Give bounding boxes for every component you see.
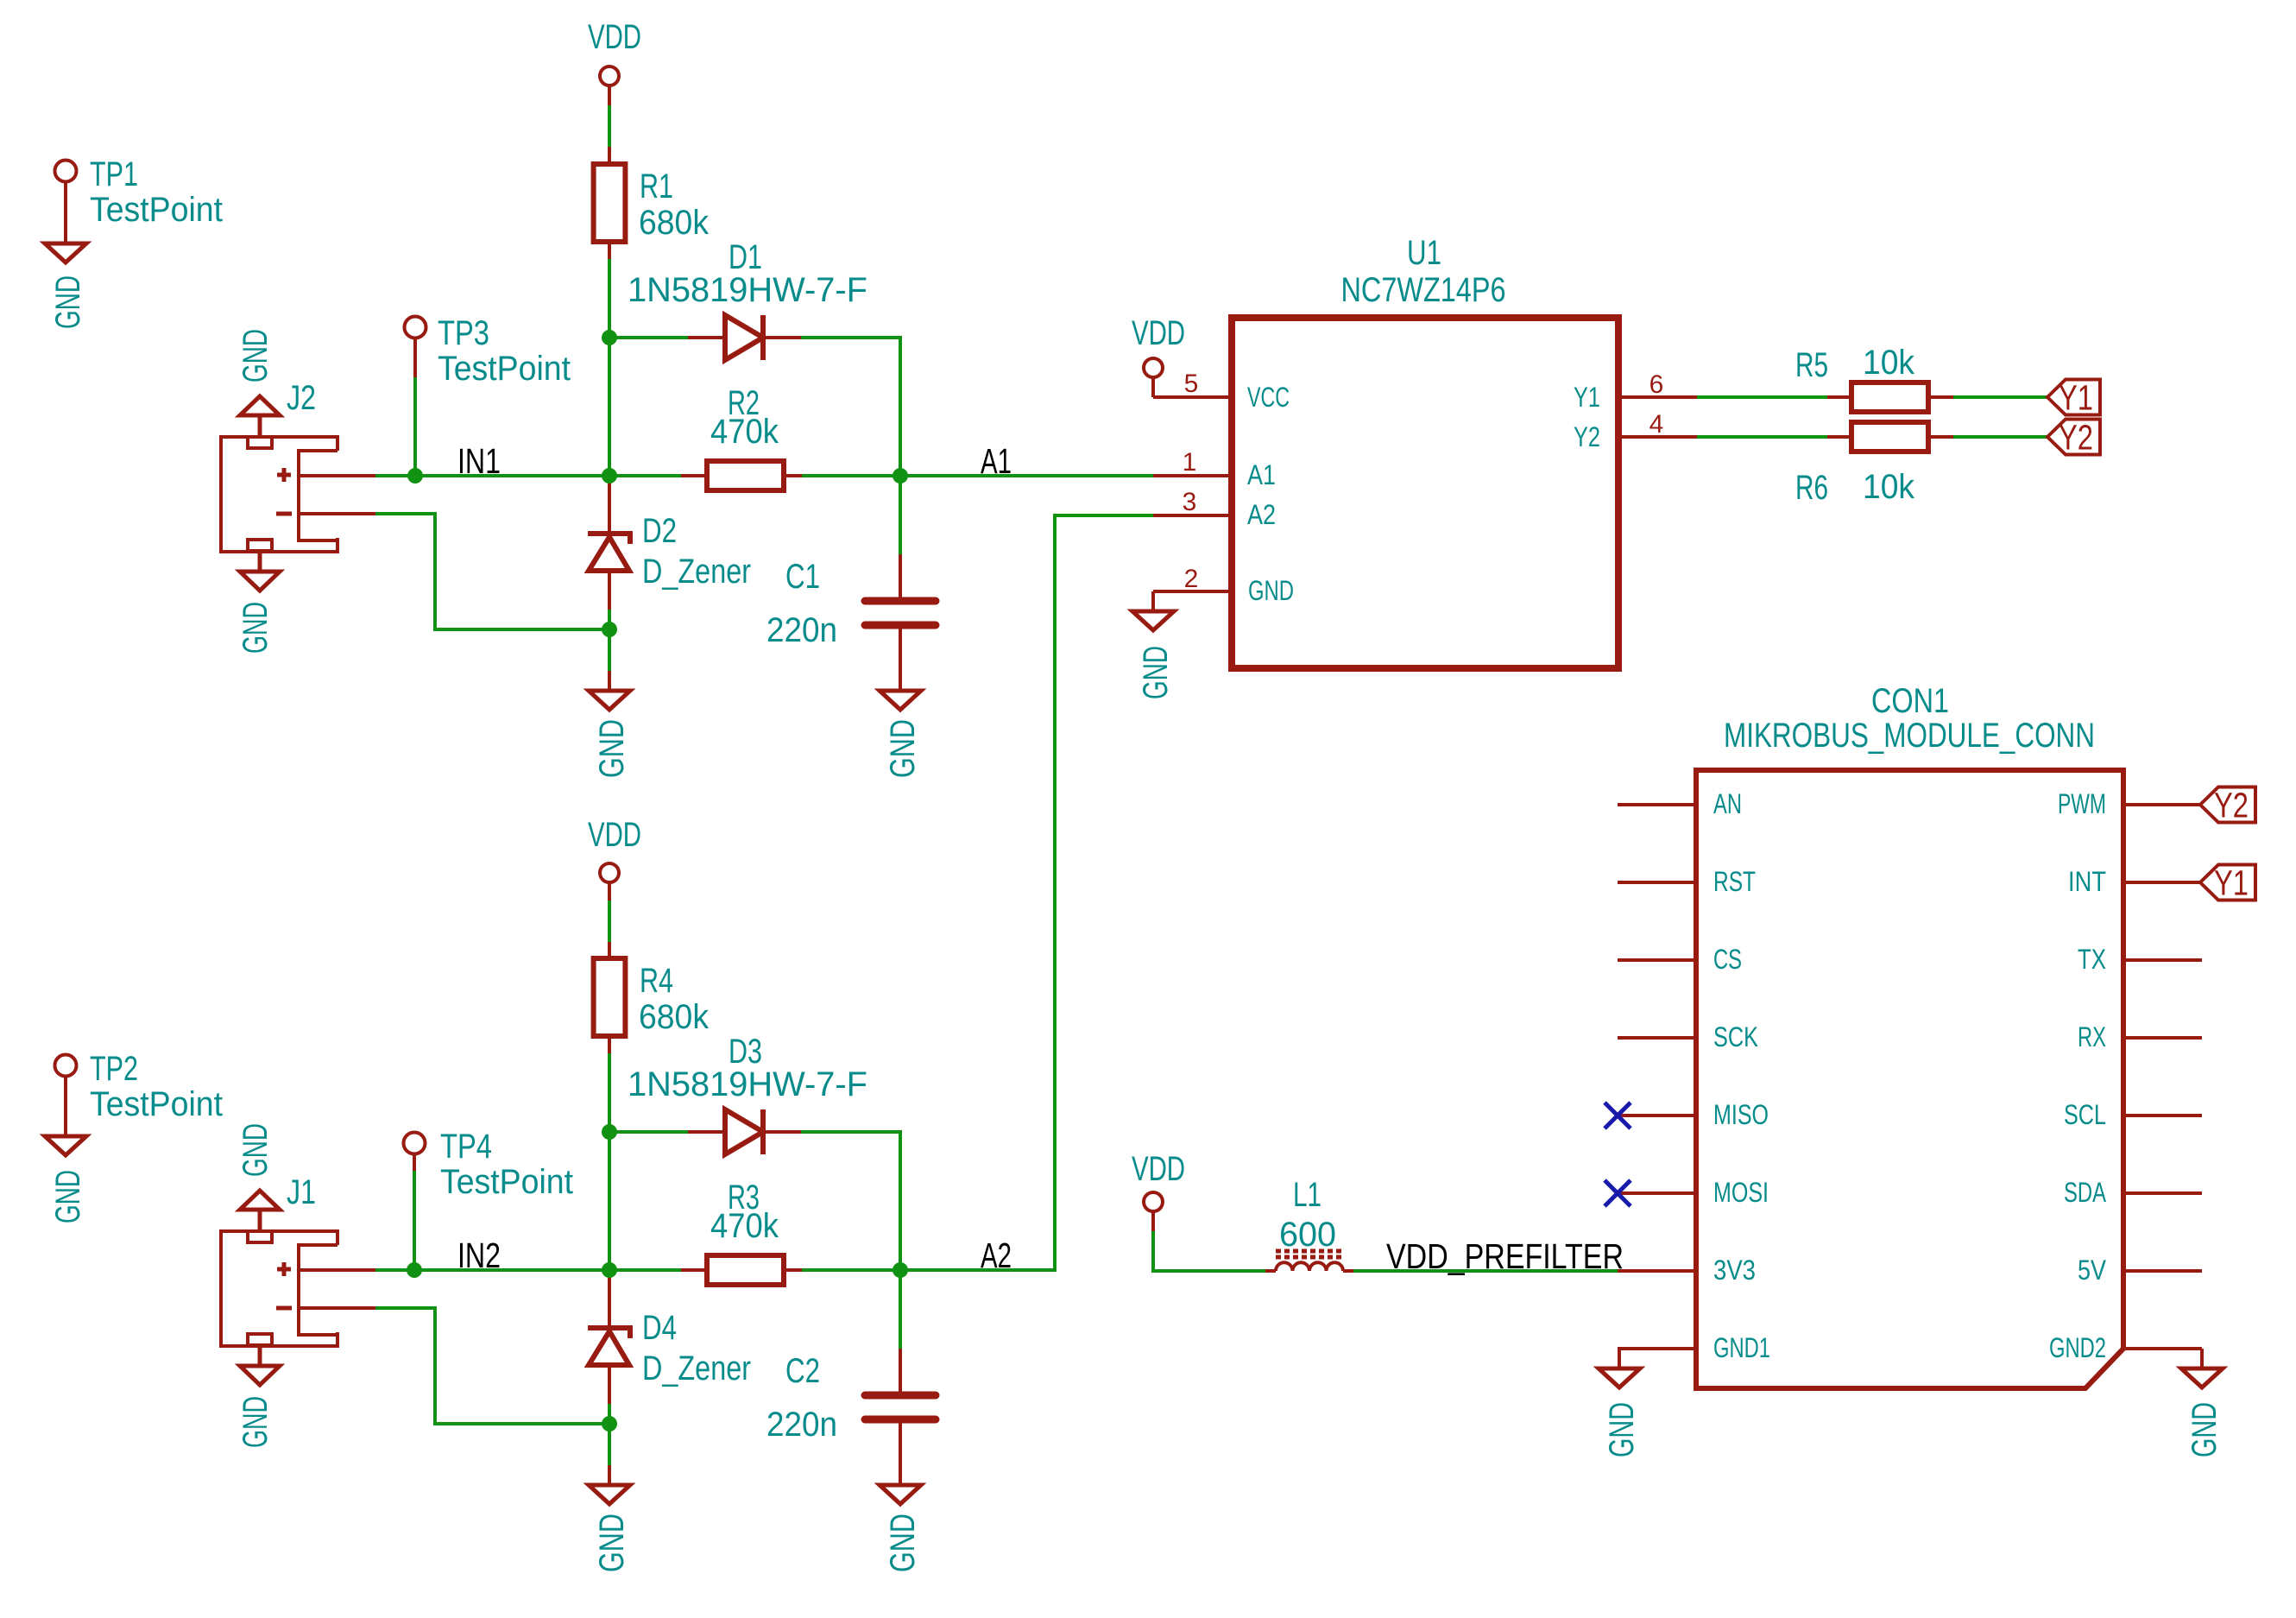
no-connect X on MISO xyxy=(1605,1103,1631,1128)
wire TP4 to IN2 xyxy=(413,1171,416,1270)
wire R3 to A2 corner xyxy=(802,1268,1055,1272)
junction TP4/IN2 xyxy=(407,1262,422,1278)
GND label below J1 xyxy=(237,1396,274,1448)
diode D2 D_Zener xyxy=(588,476,751,610)
U1 pin 2 GND xyxy=(1153,565,1294,606)
CON1 pin INT xyxy=(2068,866,2202,897)
wire U1 Y2 to R6 xyxy=(1697,435,1829,439)
CON1 pin PWM xyxy=(2058,788,2202,819)
wire U1 Y1 to R5 xyxy=(1697,395,1829,399)
svg-text:GND: GND xyxy=(237,602,274,654)
svg-text:IN1: IN1 xyxy=(457,441,501,481)
power symbol VDD (L1) xyxy=(1132,1150,1185,1231)
svg-text:SDA: SDA xyxy=(2064,1177,2106,1208)
svg-text:680k: 680k xyxy=(639,204,710,242)
diode D1 1N5819HW-7-F xyxy=(628,238,867,360)
power symbol VDD (R4) xyxy=(588,816,641,901)
wire IN1 from J2+ xyxy=(375,474,684,477)
svg-text:Y1: Y1 xyxy=(2214,863,2249,903)
connector J1 xyxy=(221,1173,375,1385)
wire R6 to Y2 label xyxy=(1953,435,2047,439)
svg-text:A1: A1 xyxy=(981,441,1012,481)
wire A2 node to C2 xyxy=(899,1270,902,1349)
ground symbol below D2 xyxy=(589,671,631,778)
svg-text:3V3: 3V3 xyxy=(1713,1255,1756,1286)
CON1 pin AN xyxy=(1618,788,1742,819)
svg-text:J2: J2 xyxy=(287,379,316,417)
svg-text:Y2: Y2 xyxy=(2214,786,2249,825)
CON1 pin RST xyxy=(1618,866,1756,897)
wire J2 minus to D2 anode xyxy=(375,514,609,629)
diode D4 D_Zener xyxy=(588,1270,751,1404)
svg-text:R4: R4 xyxy=(640,962,673,1000)
global label Y2 xyxy=(2047,418,2100,458)
svg-text:GND: GND xyxy=(1248,575,1294,606)
svg-text:MIKROBUS_MODULE_CONN: MIKROBUS_MODULE_CONN xyxy=(1724,717,2095,755)
svg-text:Y1: Y1 xyxy=(2059,378,2093,418)
resistor R1 680k xyxy=(594,147,710,259)
wire D1 to A1 node xyxy=(801,338,900,476)
junction at R1/D1 tap xyxy=(602,330,617,345)
svg-text:TestPoint: TestPoint xyxy=(438,350,571,388)
CON1 pin 5V xyxy=(2078,1255,2202,1286)
svg-text:GND1: GND1 xyxy=(1713,1332,1770,1363)
U1 pin 3 A2 xyxy=(1153,488,1276,530)
svg-text:10k: 10k xyxy=(1863,468,1915,506)
svg-text:TestPoint: TestPoint xyxy=(90,1085,223,1123)
ground symbol below C1 xyxy=(880,671,922,778)
CON1 pin GND1 xyxy=(1618,1332,1770,1363)
svg-text:GND: GND xyxy=(237,1396,274,1448)
svg-text:680k: 680k xyxy=(639,998,710,1036)
ground symbol for TP1 xyxy=(45,243,87,329)
testpoint TP3 xyxy=(405,314,571,388)
net label IN1 xyxy=(457,441,501,481)
connector J2 xyxy=(221,379,375,591)
diode D3 1N5819HW-7-F xyxy=(628,1033,867,1154)
CON1 pin SDA xyxy=(2064,1177,2202,1208)
wire R5 to Y1 label xyxy=(1953,395,2047,399)
resistor R2 470k xyxy=(681,384,804,490)
svg-text:470k: 470k xyxy=(710,1207,779,1245)
net label A1 xyxy=(981,441,1012,481)
svg-text:CON1: CON1 xyxy=(1871,682,1949,720)
svg-text:VDD_PREFILTER: VDD_PREFILTER xyxy=(1386,1236,1624,1276)
CON1 pin GND2 xyxy=(2049,1332,2202,1363)
svg-text:L1: L1 xyxy=(1293,1176,1321,1214)
junction TP3/IN1 xyxy=(407,468,423,484)
svg-text:RX: RX xyxy=(2078,1021,2106,1052)
wire node to D3 xyxy=(609,1130,690,1134)
svg-text:C2: C2 xyxy=(785,1352,820,1390)
svg-text:1N5819HW-7-F: 1N5819HW-7-F xyxy=(628,271,867,309)
svg-text:10k: 10k xyxy=(1863,344,1915,382)
svg-text:AN: AN xyxy=(1713,788,1742,819)
resistor R5 10k xyxy=(1795,344,1953,412)
svg-text:NC7WZ14P6: NC7WZ14P6 xyxy=(1341,271,1506,309)
svg-text:GND: GND xyxy=(1603,1402,1641,1457)
svg-text:TestPoint: TestPoint xyxy=(440,1163,573,1201)
svg-text:GND: GND xyxy=(237,1123,274,1177)
CON1 pin SCL xyxy=(2064,1099,2202,1130)
svg-text:SCL: SCL xyxy=(2064,1099,2106,1130)
svg-text:3: 3 xyxy=(1183,488,1197,516)
svg-text:VDD: VDD xyxy=(1132,1150,1185,1188)
junction R1/D2/IN1 xyxy=(602,468,617,484)
svg-text:SCK: SCK xyxy=(1713,1021,1758,1052)
svg-text:VDD: VDD xyxy=(588,18,641,56)
svg-text:C1: C1 xyxy=(785,558,820,596)
svg-text:1N5819HW-7-F: 1N5819HW-7-F xyxy=(628,1065,867,1103)
U1 pin 1 A1 xyxy=(1153,448,1276,490)
GND label below J2 xyxy=(237,602,274,654)
junction D2/J2- xyxy=(602,622,617,637)
svg-text:RST: RST xyxy=(1713,866,1756,897)
svg-text:R5: R5 xyxy=(1795,346,1828,384)
net label A2 xyxy=(981,1236,1012,1275)
svg-text:VCC: VCC xyxy=(1247,382,1290,413)
net label VDD_PREFILTER xyxy=(1386,1236,1624,1276)
svg-text:A2: A2 xyxy=(1247,499,1276,530)
junction at R4/D3 tap xyxy=(602,1124,617,1140)
svg-text:R6: R6 xyxy=(1795,469,1828,507)
svg-text:470k: 470k xyxy=(710,413,779,451)
wire VDD to L1 xyxy=(1153,1231,1267,1271)
svg-text:GND: GND xyxy=(237,329,274,382)
connector CON1 MIKROBUS_MODULE_CONN body xyxy=(1696,682,2123,1388)
svg-text:TP1: TP1 xyxy=(90,155,138,193)
wire D4 anode down xyxy=(608,1404,611,1465)
wire A1 node to C1 xyxy=(899,476,902,554)
svg-text:GND: GND xyxy=(49,1170,87,1223)
svg-text:2: 2 xyxy=(1184,565,1199,593)
GND label above J2 xyxy=(237,329,274,382)
junction D4/J1- xyxy=(602,1416,617,1432)
power symbol VDD (U1) xyxy=(1132,314,1185,397)
svg-text:600: 600 xyxy=(1279,1216,1336,1254)
svg-text:MISO: MISO xyxy=(1713,1099,1769,1130)
wire D2 anode down xyxy=(608,610,611,671)
svg-text:220n: 220n xyxy=(766,611,837,649)
svg-text:GND: GND xyxy=(2186,1402,2223,1457)
svg-text:1: 1 xyxy=(1183,448,1197,477)
CON1 pin SCK xyxy=(1618,1021,1758,1052)
svg-text:VDD: VDD xyxy=(588,816,641,854)
svg-text:GND: GND xyxy=(49,275,87,329)
junction R3/D3/C2 xyxy=(893,1262,908,1278)
svg-text:VDD: VDD xyxy=(1132,314,1185,352)
svg-text:TP2: TP2 xyxy=(90,1050,138,1088)
svg-text:TP3: TP3 xyxy=(438,314,489,352)
svg-text:GND: GND xyxy=(593,1514,631,1572)
svg-text:Y2: Y2 xyxy=(2059,418,2093,458)
wire R2 to U1 pin A1 xyxy=(802,474,1153,477)
svg-text:D4: D4 xyxy=(642,1309,677,1347)
capacitor C2 220n xyxy=(766,1349,936,1465)
testpoint TP1 xyxy=(55,155,224,243)
CON1 pin TX xyxy=(2078,944,2202,975)
svg-text:6: 6 xyxy=(1649,370,1664,399)
wire VDD to R4 xyxy=(608,901,611,942)
svg-text:PWM: PWM xyxy=(2058,788,2106,819)
junction R4/D4/IN2 xyxy=(602,1262,617,1278)
svg-text:IN2: IN2 xyxy=(457,1236,501,1275)
svg-text:GND2: GND2 xyxy=(2049,1332,2106,1363)
svg-text:TestPoint: TestPoint xyxy=(90,191,223,229)
U1 pin 5 VCC xyxy=(1153,370,1290,413)
svg-text:D_Zener: D_Zener xyxy=(642,553,751,591)
CON1 pin MOSI xyxy=(1618,1177,1769,1208)
svg-text:U1: U1 xyxy=(1407,234,1441,272)
U1 pin 4 Y2 xyxy=(1574,410,1697,452)
svg-text:INT: INT xyxy=(2068,866,2106,897)
CON1 pin 3V3 xyxy=(1618,1255,1756,1286)
svg-text:GND: GND xyxy=(884,719,922,778)
net label IN2 xyxy=(457,1236,501,1275)
svg-text:TX: TX xyxy=(2078,944,2106,975)
wire VDD_PREFILTER to CON1 3V3 xyxy=(1353,1269,1619,1273)
wire J1 minus to D4 anode xyxy=(375,1308,609,1424)
CON1 pin MISO xyxy=(1618,1099,1769,1130)
resistor R4 680k xyxy=(594,942,710,1053)
svg-text:Y2: Y2 xyxy=(1574,421,1600,452)
svg-text:5: 5 xyxy=(1184,370,1199,398)
ground symbol below C2 xyxy=(880,1465,922,1572)
global label Y1 at INT xyxy=(2200,863,2255,903)
testpoint TP4 xyxy=(404,1128,574,1201)
resistor R3 470k xyxy=(681,1179,804,1285)
GND label above J1 xyxy=(237,1123,274,1177)
wire node to D1 xyxy=(609,336,690,339)
svg-text:GND: GND xyxy=(593,719,631,778)
svg-text:A1: A1 xyxy=(1247,459,1276,490)
wire A2 from IN2 node to U1 pin 3 xyxy=(900,515,1153,1270)
resistor R6 10k xyxy=(1795,422,1953,507)
svg-text:CS: CS xyxy=(1713,944,1742,975)
wire R4 to IN2 xyxy=(608,1053,611,1270)
IC U1 NC7WZ14P6 body xyxy=(1232,234,1618,668)
CON1 pin RX xyxy=(2078,1021,2202,1052)
wire VDD to R1 xyxy=(608,105,611,147)
no-connect X on MOSI xyxy=(1605,1180,1631,1206)
global label Y1 xyxy=(2047,378,2100,418)
svg-text:MOSI: MOSI xyxy=(1713,1177,1769,1208)
global label Y2 at PWM xyxy=(2200,786,2255,825)
svg-text:J1: J1 xyxy=(287,1173,316,1211)
U1 pin 6 Y1 xyxy=(1574,370,1697,413)
wire D3 to A2 node xyxy=(801,1132,900,1270)
svg-text:Y1: Y1 xyxy=(1574,382,1600,413)
testpoint TP2 xyxy=(55,1050,224,1136)
ground symbol below D4 xyxy=(589,1465,631,1572)
ground symbol for U1 pin 2 xyxy=(1132,591,1175,699)
svg-text:GND: GND xyxy=(884,1514,922,1572)
svg-text:4: 4 xyxy=(1649,410,1664,439)
capacitor C1 220n xyxy=(766,554,936,671)
svg-text:5V: 5V xyxy=(2078,1255,2107,1286)
wire IN2 from J1+ xyxy=(375,1268,684,1272)
ground symbol for TP2 xyxy=(45,1136,87,1223)
svg-text:220n: 220n xyxy=(766,1406,837,1444)
wire TP3 to IN1 xyxy=(413,377,417,476)
inductor L1 600 xyxy=(1265,1176,1353,1271)
CON1 pin CS xyxy=(1618,944,1742,975)
svg-text:R1: R1 xyxy=(640,167,673,205)
ground symbol GND2 xyxy=(2181,1349,2223,1457)
svg-text:D_Zener: D_Zener xyxy=(642,1349,751,1387)
wire R1 to IN1 xyxy=(608,259,611,476)
svg-text:GND: GND xyxy=(1137,646,1175,699)
svg-text:TP4: TP4 xyxy=(440,1128,492,1166)
svg-text:D2: D2 xyxy=(642,512,677,550)
ground symbol GND1 xyxy=(1599,1349,1641,1457)
junction R2/D1/C1 xyxy=(893,468,908,484)
power symbol VDD (R1) xyxy=(588,18,641,105)
